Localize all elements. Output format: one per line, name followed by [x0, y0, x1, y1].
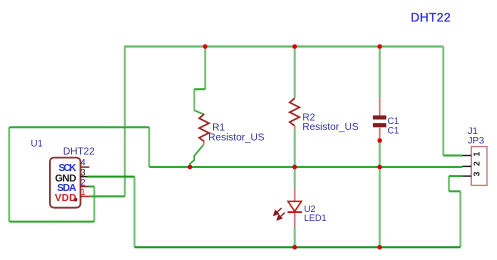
svg-text:DHT22: DHT22 [411, 11, 451, 25]
svg-text:2: 2 [81, 177, 86, 187]
svg-text:1: 1 [472, 152, 482, 157]
svg-text:2: 2 [472, 161, 482, 166]
svg-text:VDD: VDD [55, 193, 77, 204]
svg-text:JP3: JP3 [468, 135, 484, 146]
svg-text:Resistor_US: Resistor_US [302, 122, 358, 133]
svg-text:LED1: LED1 [304, 213, 327, 223]
svg-text:DHT22: DHT22 [63, 147, 95, 158]
svg-text:Resistor_US: Resistor_US [208, 133, 264, 144]
svg-text:C1: C1 [388, 126, 400, 136]
svg-text:C1: C1 [388, 116, 400, 126]
svg-text:3: 3 [81, 168, 86, 178]
svg-text:3: 3 [472, 171, 482, 176]
svg-text:1: 1 [81, 187, 86, 197]
svg-text:U1: U1 [31, 139, 43, 150]
svg-text:4: 4 [81, 158, 86, 168]
